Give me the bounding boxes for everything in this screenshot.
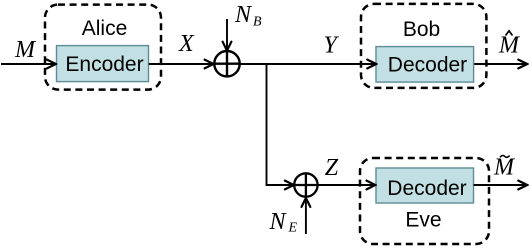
svg-text:E: E <box>288 221 298 236</box>
decoder block (Eve) <box>376 168 474 203</box>
decoder block (Bob) <box>376 47 474 83</box>
svg-text:Encoder: Encoder <box>65 53 143 76</box>
svg-text:M: M <box>498 33 521 59</box>
wire encoder to adder1 <box>149 63 214 65</box>
wire Eve decoder output <box>474 184 528 186</box>
wire NE arrow into adder2 <box>305 198 307 234</box>
wire NB arrow into adder1 <box>226 19 228 51</box>
wire branch down <box>267 64 294 185</box>
svg-text:M: M <box>493 155 516 181</box>
encoder block <box>57 46 149 82</box>
svg-text:Decoder: Decoder <box>387 177 466 200</box>
wire M input arrow <box>1 63 56 65</box>
svg-text:Alice: Alice <box>82 17 128 40</box>
dashed box Eve <box>360 158 489 244</box>
dashed box Alice <box>45 5 161 90</box>
wire adder2 to Eve decoder <box>318 184 376 186</box>
svg-text:Z: Z <box>325 155 339 181</box>
adder2 (circle with plus) <box>294 173 317 196</box>
svg-text:B: B <box>253 14 262 29</box>
svg-text:Bob: Bob <box>403 18 440 41</box>
svg-text:Eve: Eve <box>405 209 441 232</box>
dashed box Bob <box>361 4 486 88</box>
wire adder1 to Bob decoder <box>240 63 377 65</box>
adder1 (circle with plus) <box>214 51 239 76</box>
wire Bob decoder output <box>474 63 527 65</box>
svg-text:N: N <box>234 2 253 28</box>
svg-text:Decoder: Decoder <box>388 53 467 76</box>
svg-text:X: X <box>178 31 195 57</box>
svg-text:N: N <box>269 209 288 235</box>
svg-text:M: M <box>14 37 37 63</box>
